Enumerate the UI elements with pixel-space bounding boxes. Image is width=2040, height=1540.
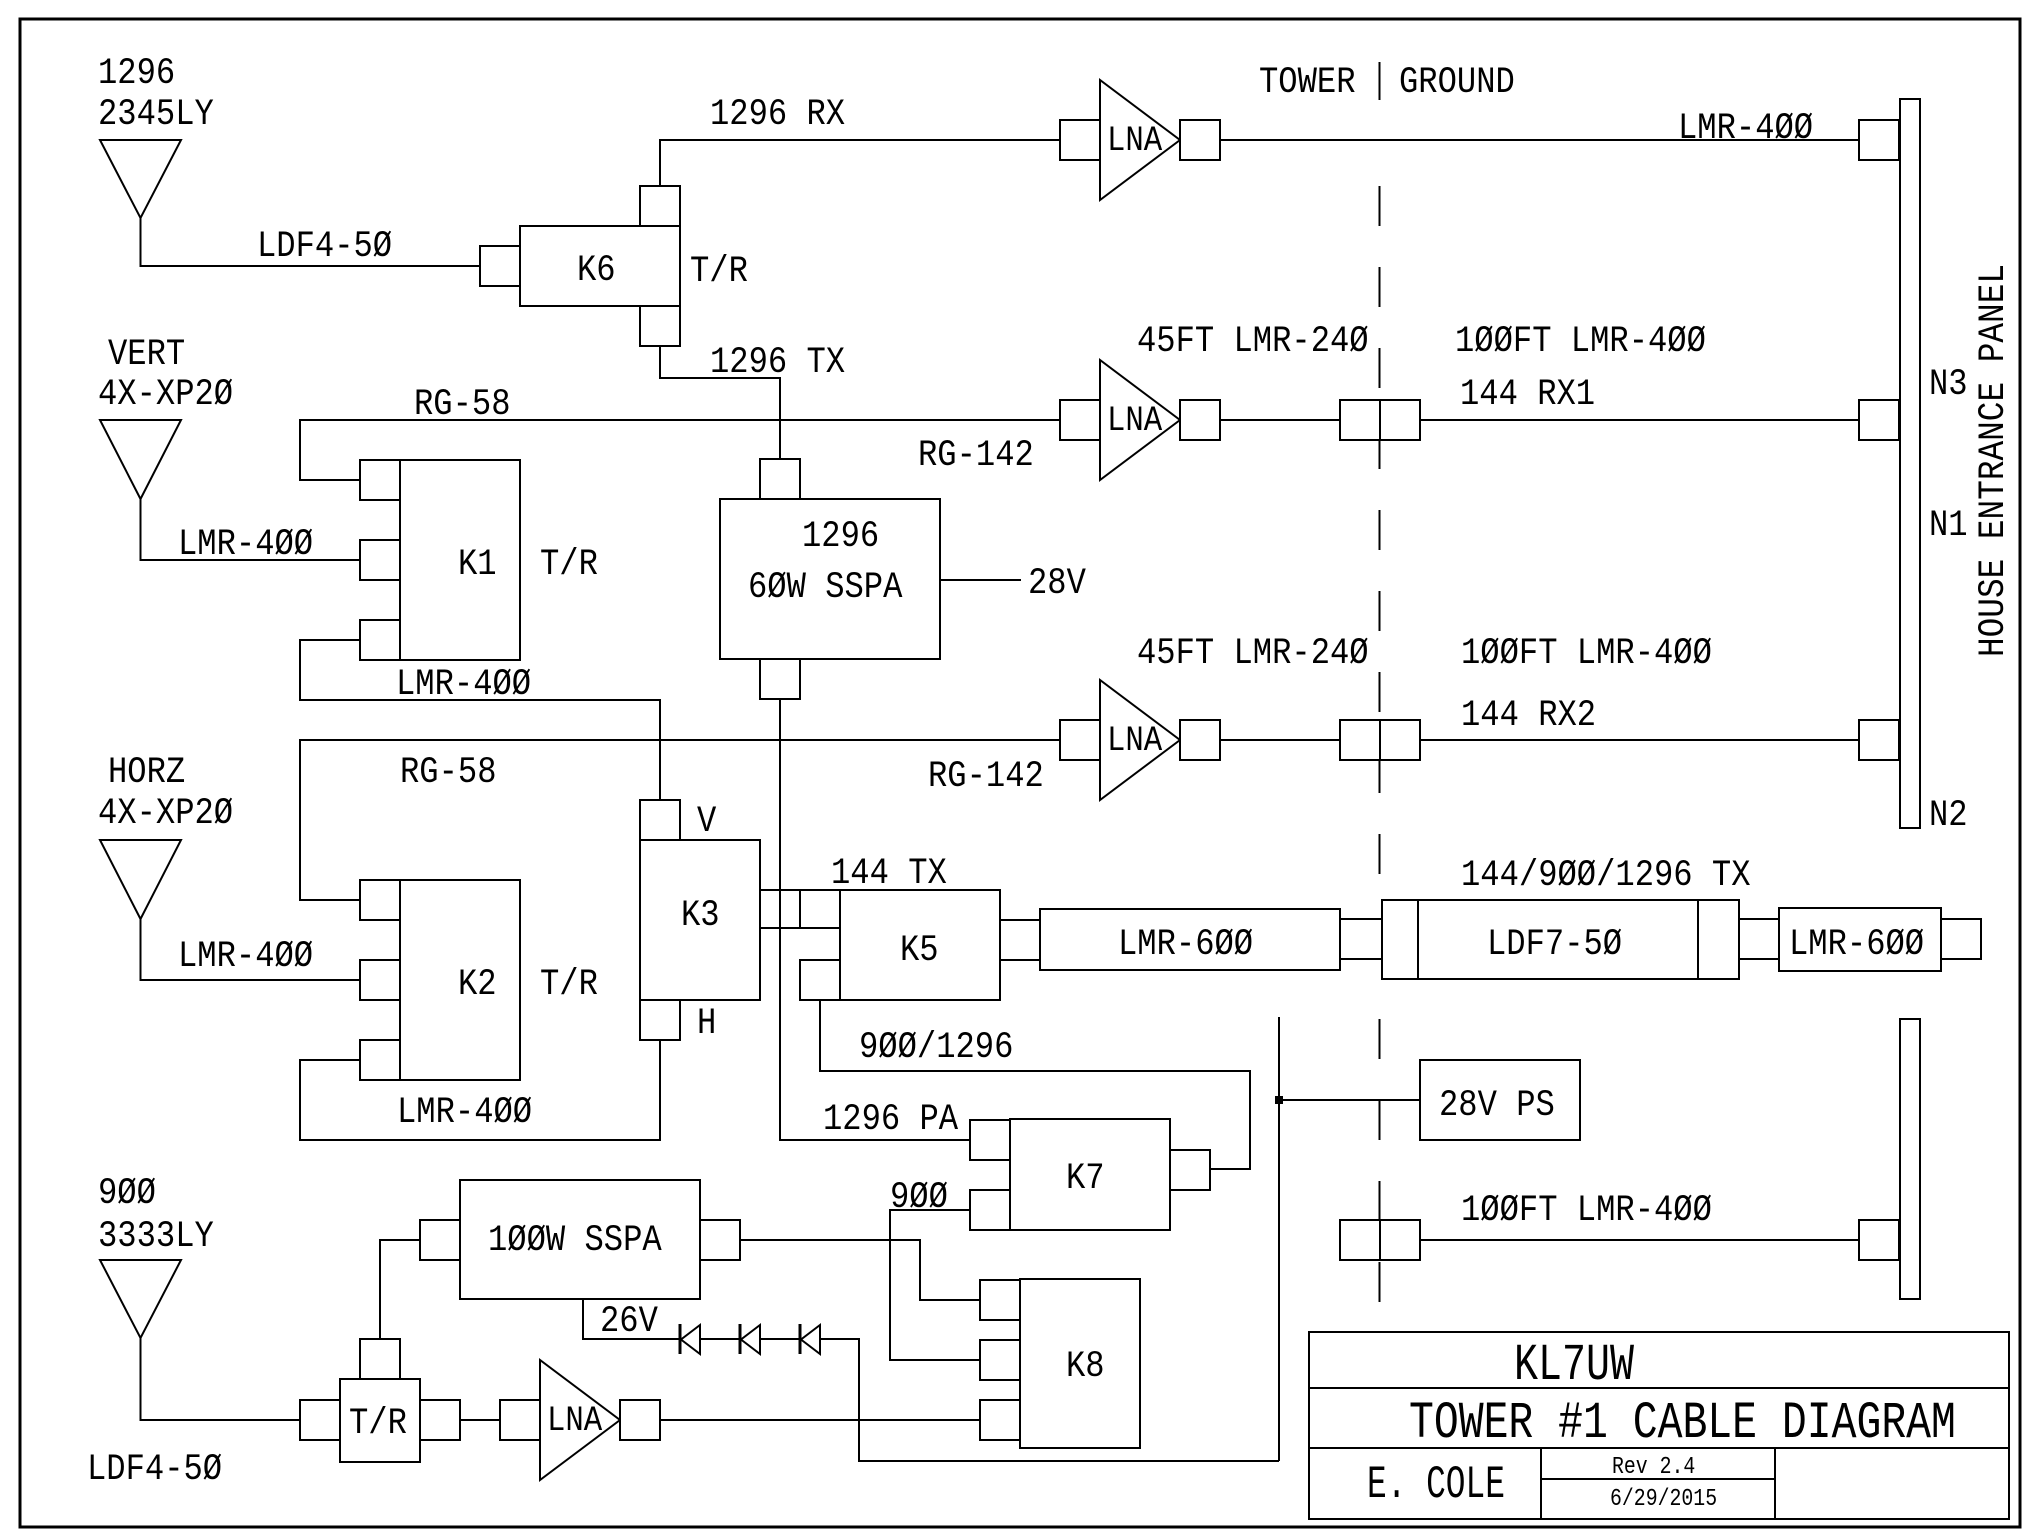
svg-text:T/R: T/R (540, 544, 598, 586)
splice connector pair row3 (1340, 720, 1380, 760)
relay K1 top connector (360, 460, 400, 500)
svg-text:LNA: LNA (1107, 401, 1162, 441)
amplifier LNA3 144 preamp (1100, 680, 1180, 800)
wire 1296 PA output SSPA to K7 (780, 699, 970, 1140)
svg-text:RG-142: RG-142 (928, 756, 1044, 798)
tower/ground dashed boundary line (upper) (1379, 186, 1381, 881)
wire T/R to LNA4 (460, 1419, 500, 1421)
svg-text:RG-58: RG-58 (400, 752, 497, 794)
house entrance panel bar (lower) (1900, 1019, 1920, 1299)
diode D1 (681, 1325, 700, 1354)
svg-text:LMR-4ØØ: LMR-4ØØ (397, 1092, 532, 1134)
svg-text:RG-142: RG-142 (918, 435, 1034, 477)
cable LDF7-50 body (1382, 900, 1739, 979)
svg-text:HOUSE ENTRANCE PANEL: HOUSE ENTRANCE PANEL (1973, 264, 2015, 657)
svg-text:144 TX: 144 TX (831, 853, 947, 895)
antenna A4 900 3333LY (100, 1260, 181, 1338)
wire 100FT LMR-400 to lower panel (1420, 1239, 1859, 1241)
svg-text:E. COLE: E. COLE (1367, 1459, 1505, 1511)
svg-text:45FT LMR-24Ø: 45FT LMR-24Ø (1137, 321, 1369, 363)
relay T/R right connector (420, 1400, 460, 1440)
wire 900/1296 K5 to K7 (820, 1000, 1250, 1169)
svg-text:9ØØ/1296: 9ØØ/1296 (859, 1027, 1013, 1069)
svg-text:V: V (697, 801, 716, 843)
relay K5 lower connector (800, 960, 840, 1000)
svg-text:K1: K1 (458, 544, 497, 586)
amplifier LNA1 1296 preamp (1100, 80, 1180, 200)
diode D3 (801, 1325, 820, 1354)
relay K1 bottom connector (360, 620, 400, 660)
svg-text:LDF4-5Ø: LDF4-5Ø (257, 226, 392, 268)
svg-text:LMR-4ØØ: LMR-4ØØ (396, 664, 531, 706)
diode D2 (741, 1325, 760, 1354)
cable LDF7-50 end cap dividers (1418, 900, 1698, 979)
title block divider under title (1309, 1447, 2009, 1449)
wire 26V from SSPA to diode chain (583, 1299, 680, 1339)
amplifier LNA1 output connector (1180, 120, 1220, 160)
relay K2 body (400, 880, 520, 1080)
wire RG-58 K1 to LNA2 (144 RX1 line) (300, 420, 1060, 480)
svg-text:LNA: LNA (1107, 121, 1162, 161)
svg-text:K7: K7 (1066, 1158, 1105, 1200)
svg-text:28V: 28V (1028, 563, 1086, 605)
svg-text:6/29/2015: 6/29/2015 (1610, 1486, 1717, 1513)
svg-text:N1: N1 (1929, 505, 1968, 547)
title block divider under KL7UW (1309, 1387, 2009, 1389)
svg-text:1ØØFT LMR-4ØØ: 1ØØFT LMR-4ØØ (1461, 1190, 1712, 1232)
amplifier 1296 60W SSPA top connector (760, 459, 800, 499)
svg-text:TOWER #1 CABLE DIAGRAM: TOWER #1 CABLE DIAGRAM (1409, 1394, 1956, 1453)
svg-text:1ØØW SSPA: 1ØØW SSPA (488, 1220, 662, 1262)
svg-text:9ØØ: 9ØØ (98, 1173, 156, 1215)
title block outer frame (1309, 1332, 2009, 1519)
svg-text:KL7UW: KL7UW (1514, 1336, 1635, 1395)
house entrance panel connector N3 (1859, 400, 1899, 440)
wire LMR-400 K2 to K3 H port (300, 1040, 660, 1140)
relay K3 V connector (640, 800, 680, 840)
relay K5 left connector (800, 890, 840, 928)
svg-text:4X-XP2Ø: 4X-XP2Ø (98, 374, 233, 416)
relay K7 right connector (1170, 1150, 1210, 1190)
svg-text:LDF7-5Ø: LDF7-5Ø (1487, 924, 1622, 966)
svg-text:2345LY: 2345LY (98, 94, 214, 136)
svg-text:T/R: T/R (349, 1403, 407, 1445)
house entrance panel connector bottom (1859, 1220, 1899, 1260)
svg-text:6ØW SSPA: 6ØW SSPA (748, 567, 903, 609)
power supply 28V PS body (1420, 1060, 1580, 1140)
wire diode chain to 28V bus (820, 1339, 1279, 1461)
svg-text:1296 RX: 1296 RX (710, 94, 845, 136)
wire A1 feed LDF4-50 to K6 (141, 218, 481, 266)
wire 1296 TX from K6 to 60W SSPA (660, 346, 780, 459)
wire LNA4 to K8 bottom (660, 1419, 980, 1421)
svg-text:K5: K5 (900, 930, 939, 972)
relay K7 lower connector (970, 1190, 1010, 1230)
wire 100FT LMR-400 splice to panel row3 (1420, 739, 1859, 741)
connector LMR-600 right end (1941, 919, 1981, 959)
wire 45FT LMR-240 LNA3 to splice (1220, 739, 1340, 741)
svg-text:GROUND: GROUND (1399, 62, 1515, 104)
amplifier LNA3 output connector (1180, 720, 1220, 760)
svg-text:1296 PA: 1296 PA (823, 1099, 959, 1141)
relay T/R body (340, 1379, 420, 1462)
amplifier LNA1 input connector (1060, 120, 1100, 160)
relay K2 top connector (360, 880, 400, 920)
antenna A1 1296 2345LY (100, 140, 181, 218)
house entrance panel connector N2 (1859, 720, 1899, 760)
house entrance panel connector row1 (1859, 120, 1899, 160)
svg-text:144 RX2: 144 RX2 (1461, 695, 1596, 737)
amplifier LNA3 input connector (1060, 720, 1100, 760)
title block vertical divider right (1774, 1448, 1776, 1519)
connector LDF7-50 to LMR-600 right (1739, 919, 1779, 959)
relay K8 middle connector (980, 1340, 1020, 1380)
svg-text:4X-XP2Ø: 4X-XP2Ø (98, 793, 233, 835)
cable LMR-600 (left) body (1040, 909, 1340, 970)
svg-text:144 RX1: 144 RX1 (1460, 374, 1595, 416)
wire A3 feed LMR-400 to K2 (141, 919, 361, 980)
amplifier 1296 60W SSPA bottom connector (760, 659, 800, 699)
svg-text:RG-58: RG-58 (414, 384, 511, 426)
wire A2 feed LMR-400 to K1 (141, 499, 361, 560)
amplifier 100W SSPA left connector (420, 1220, 460, 1260)
relay K5 right connector (1000, 920, 1040, 960)
wire RG-58 K2 to LNA3 (144 RX2 line) (300, 740, 1060, 900)
relay K7 body (1010, 1119, 1170, 1230)
relay K8 body (1020, 1279, 1140, 1448)
connector LMR-600 to LDF7-50 (1340, 919, 1382, 959)
svg-text:H: H (697, 1003, 716, 1045)
relay K2 middle connector (360, 960, 400, 1000)
svg-text:26V: 26V (600, 1301, 658, 1343)
svg-text:K6: K6 (577, 250, 616, 292)
antenna A3 HORZ 4X-XP20 (100, 840, 181, 919)
relay T/R left connector (300, 1400, 340, 1440)
amplifier LNA4 output connector (620, 1400, 660, 1440)
relay K2 bottom connector (360, 1040, 400, 1080)
diode D2 cathode bar (739, 1324, 742, 1354)
relay K8 top connector (980, 1280, 1020, 1320)
svg-text:LDF4-5Ø: LDF4-5Ø (87, 1449, 222, 1491)
svg-text:LMR-4ØØ: LMR-4ØØ (178, 524, 313, 566)
splice connector pair bottom row (1340, 1220, 1380, 1260)
svg-text:LMR-4ØØ: LMR-4ØØ (1678, 108, 1813, 150)
wire A4 feed LDF4-50 to T/R relay (141, 1338, 301, 1420)
svg-text:1ØØFT LMR-4ØØ: 1ØØFT LMR-4ØØ (1461, 633, 1712, 675)
wire 28V feed to 60W SSPA (940, 579, 1021, 581)
svg-text:1296: 1296 (802, 516, 879, 558)
diode D1 cathode bar (679, 1324, 682, 1354)
svg-text:K8: K8 (1066, 1346, 1105, 1388)
svg-text:9ØØ: 9ØØ (890, 1177, 948, 1219)
svg-text:144/9ØØ/1296 TX: 144/9ØØ/1296 TX (1461, 855, 1751, 897)
amplifier 100W SSPA right connector (700, 1220, 740, 1260)
junction 28V bus to power supply (1275, 1096, 1283, 1104)
amplifier LNA2 144 preamp (1100, 360, 1180, 480)
relay T/R top connector (360, 1339, 400, 1379)
relay K3 body (640, 840, 760, 1000)
wire 100FT LMR-400 splice to panel row2 (1420, 419, 1859, 421)
tower/ground boundary separator dash (1379, 62, 1381, 100)
svg-text:28V PS: 28V PS (1439, 1085, 1555, 1127)
svg-text:45FT LMR-24Ø: 45FT LMR-24Ø (1137, 633, 1369, 675)
svg-text:LMR-4ØØ: LMR-4ØØ (178, 936, 313, 978)
wire LMR-400 LNA1 to house entrance panel (1220, 139, 1859, 141)
svg-text:LMR-6ØØ: LMR-6ØØ (1118, 924, 1253, 966)
wire 28V distribution bus vertical (1278, 1017, 1280, 1461)
title block rev/date divider (1541, 1478, 1775, 1480)
svg-text:K2: K2 (458, 964, 497, 1006)
wire 28V bus to 28V PS (1279, 1099, 1420, 1101)
amplifier LNA2 input connector (1060, 400, 1100, 440)
relay K6 bottom connector (640, 306, 680, 346)
svg-text:Rev 2.4: Rev 2.4 (1612, 1454, 1695, 1481)
wire K3 to K5 upper (760, 889, 800, 891)
house entrance panel bar (upper) (1900, 99, 1920, 828)
wire D2 to D3 (760, 1338, 800, 1340)
relay K5 body (840, 890, 1000, 1000)
relay K8 bottom connector (980, 1400, 1020, 1440)
relay K6 left connector (480, 246, 520, 286)
svg-text:N3: N3 (1929, 364, 1968, 406)
svg-text:LNA: LNA (1107, 721, 1162, 761)
cable LMR-600 (right) body (1779, 908, 1941, 971)
diode D3 cathode bar (799, 1324, 802, 1354)
svg-text:LNA: LNA (547, 1401, 602, 1441)
amplifier LNA2 output connector (1180, 400, 1220, 440)
amplifier LNA4 900 preamp (540, 1360, 620, 1480)
svg-text:1296 TX: 1296 TX (710, 342, 845, 384)
wire 900 TX 100W SSPA to K8 (740, 1240, 980, 1300)
relay K3 H connector (640, 1000, 680, 1040)
relay K1 body (400, 460, 520, 660)
svg-text:K3: K3 (681, 895, 720, 937)
wire K3 to K5 lower (760, 927, 800, 929)
tower/ground dashed boundary line (lower) (1379, 1019, 1381, 1312)
amplifier 1296 60W SSPA body (720, 499, 940, 659)
svg-text:T/R: T/R (540, 964, 598, 1006)
wire 900 K7 to K8 (890, 1210, 980, 1360)
antenna A2 VERT 4X-XP20 (100, 420, 181, 499)
wire LMR-400 K1 to K3 V port (300, 640, 660, 800)
svg-text:T/R: T/R (690, 251, 748, 293)
svg-text:1296: 1296 (98, 53, 175, 95)
title block vertical divider left (1540, 1448, 1542, 1519)
splice connector pair row2 (1340, 400, 1380, 440)
svg-text:LMR-6ØØ: LMR-6ØØ (1789, 924, 1924, 966)
svg-text:1ØØFT LMR-4ØØ: 1ØØFT LMR-4ØØ (1455, 321, 1706, 363)
svg-text:TOWER: TOWER (1259, 62, 1356, 104)
relay K1 middle connector (360, 540, 400, 580)
wire T/R to 100W SSPA input (380, 1240, 420, 1339)
amplifier 100W SSPA body (460, 1180, 700, 1299)
svg-text:3333LY: 3333LY (98, 1216, 214, 1258)
relay K6 body (520, 226, 680, 306)
svg-text:HORZ: HORZ (108, 752, 185, 794)
svg-text:VERT: VERT (108, 334, 185, 376)
wire D1 to D2 (700, 1338, 740, 1340)
svg-text:N2: N2 (1929, 795, 1968, 837)
wire 1296 RX from K6 to LNA1 (660, 140, 1060, 186)
amplifier LNA4 input connector (500, 1400, 540, 1440)
wire 45FT LMR-240 LNA2 to splice (1220, 419, 1340, 421)
relay K6 top connector (640, 186, 680, 226)
relay K7 upper connector (970, 1120, 1010, 1160)
